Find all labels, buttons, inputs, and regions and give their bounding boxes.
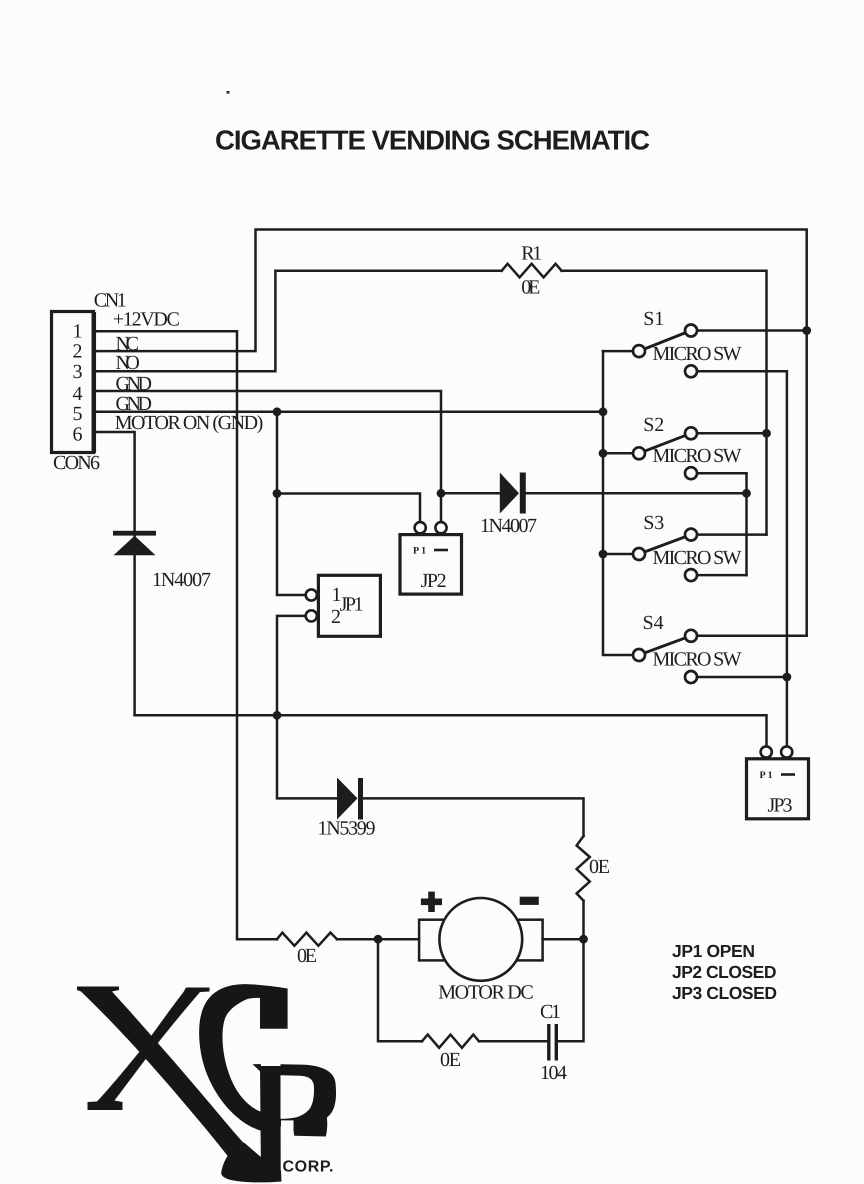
- wire JP2 right pin up: [440, 493, 443, 522]
- wire top rail NC: pin2 to S1/S4 tops: [95, 230, 807, 636]
- jumper JP2 box: [400, 535, 462, 595]
- logo X thick stroke: [77, 987, 258, 1173]
- svg-text:6: 6: [73, 424, 83, 446]
- svg-text:S3: S3: [643, 512, 664, 534]
- wire 1N5399 line right to vertical 0E: [363, 798, 584, 836]
- wire vertical 0E to motor right node: [582, 901, 585, 940]
- wire S3 common: [603, 553, 639, 556]
- pin numbers: [73, 320, 83, 445]
- logo P counter white: [281, 1075, 315, 1119]
- svg-text:CORP.: CORP.: [283, 1159, 334, 1176]
- svg-text:2: 2: [73, 340, 83, 362]
- logo P beak: [253, 1064, 261, 1072]
- wire node A vertical: pin5 dot down to JP1 pin1: [277, 412, 306, 595]
- svg-text:CON6: CON6: [53, 452, 100, 474]
- svg-text:NO: NO: [116, 352, 140, 374]
- svg-text:0E: 0E: [521, 277, 540, 299]
- svg-text:C1: C1: [540, 1001, 561, 1023]
- wire S3 top contact: [697, 533, 767, 536]
- svg-text:JP1: JP1: [340, 593, 364, 615]
- svg-text:MICRO SW: MICRO SW: [653, 648, 742, 670]
- wire bottom long line to JP3 left pin: [135, 715, 767, 746]
- diode 1N4007 vertical (cathode bar up): [113, 531, 156, 556]
- svg-text:JP3: JP3: [768, 795, 793, 817]
- svg-text:S2: S2: [643, 414, 664, 436]
- jumper JP3 pin circles: [761, 746, 793, 757]
- svg-text:P1: P1: [760, 770, 775, 781]
- wire pin1 +12VDC down to motor feed: [95, 331, 277, 939]
- jumper JP3 box: [747, 759, 809, 819]
- logo bottom foot: [221, 1143, 281, 1183]
- svg-text:1N4007: 1N4007: [480, 515, 537, 537]
- svg-text:S4: S4: [643, 612, 664, 634]
- logo P stem notch white: [281, 1120, 294, 1137]
- wire S1 bottom to S4 bottom to JP3 right pin: [697, 371, 787, 746]
- svg-text:0E: 0E: [297, 945, 317, 967]
- wire S1 top contact: [697, 329, 807, 332]
- logo C: [199, 984, 287, 1131]
- switch contact circles: [633, 325, 697, 684]
- svg-text:CIGARETTE VENDING SCHEMATIC: CIGARETTE VENDING SCHEMATIC: [215, 124, 650, 155]
- motor minus mark: [520, 897, 539, 905]
- wire S1 common: [603, 350, 639, 353]
- wire S2 common: [603, 452, 639, 455]
- wire S3 bottom contact: [697, 574, 747, 577]
- wire S2 bottom contact: [697, 472, 747, 475]
- svg-text:5: 5: [73, 403, 83, 425]
- wire 1N4007 cathode to S2/S3 bottoms: [526, 492, 747, 495]
- svg-text:MICRO SW: MICRO SW: [653, 547, 742, 569]
- svg-text:1: 1: [73, 320, 83, 342]
- logo P bowl: [281, 1064, 337, 1126]
- svg-text:4: 4: [73, 383, 83, 405]
- jumper JP1 box: [318, 575, 380, 636]
- capacitor C1 plates: [549, 1024, 557, 1061]
- svg-text:0E: 0E: [589, 856, 610, 878]
- switch S1 lever: [639, 331, 691, 352]
- svg-text:JP3 CLOSED: JP3 CLOSED: [672, 983, 777, 1003]
- diode 1N5399: [337, 778, 363, 820]
- switch S3 lever: [639, 535, 691, 554]
- svg-text:1N4007: 1N4007: [152, 569, 211, 591]
- svg-text:P1: P1: [413, 546, 428, 557]
- jumper JP2 pin circles: [415, 522, 447, 533]
- jumper JP1 pin circles: [306, 589, 317, 621]
- jumper state text block: [672, 941, 777, 1003]
- wire motor right lead: [543, 938, 584, 941]
- wire pin5 GND to switch column: [95, 411, 603, 414]
- diode 1N4007 vertical wire lower: [133, 536, 136, 716]
- svg-text:1N5399: 1N5399: [318, 818, 376, 840]
- svg-text:MOTOR ON (GND): MOTOR ON (GND): [115, 412, 264, 434]
- wire 0E to motor left node: [337, 938, 419, 941]
- wire S4 top contact: [697, 635, 807, 638]
- svg-text:GND: GND: [116, 373, 153, 395]
- switch S4 lever: [639, 636, 691, 655]
- resistor 0E bottom loop: [422, 1035, 479, 1048]
- svg-text:+12VDC: +12VDC: [113, 309, 180, 331]
- svg-text:MICRO SW: MICRO SW: [653, 445, 742, 467]
- svg-text:JP2 CLOSED: JP2 CLOSED: [672, 962, 777, 982]
- svg-text:R1: R1: [521, 243, 542, 265]
- wire C1 right plate to motor right node: [558, 939, 584, 1041]
- wire S2/S3 bottom column: [745, 473, 748, 575]
- logo P foot bar: [293, 1117, 327, 1137]
- switch S2 lever: [639, 433, 691, 453]
- logo C stem descender: [260, 1066, 281, 1182]
- wire 1N4007 anode lead: [441, 492, 500, 495]
- wire 1N4007 line: node A to JP2/diode: [277, 494, 420, 523]
- svg-text:104: 104: [540, 1062, 567, 1084]
- svg-text:JP1 OPEN: JP1 OPEN: [672, 941, 755, 961]
- wire JP1 pin2 node down to 1N5399: [277, 715, 337, 798]
- wire pin6 MOTOR ON down: [95, 432, 135, 531]
- diode 1N4007 horizontal: [500, 473, 526, 514]
- connector CN1 body: [52, 312, 94, 453]
- svg-text:JP2: JP2: [421, 570, 447, 592]
- wire pin4 GND to JP2 node: [95, 391, 441, 493]
- jumper JP2 header mark P1: [413, 546, 448, 557]
- motor plus mark: [421, 892, 442, 912]
- wire R1 rail left: pin3 up to R1: [95, 271, 502, 372]
- svg-text:MOTOR DC: MOTOR DC: [438, 982, 534, 1004]
- svg-text:S1: S1: [643, 308, 664, 330]
- wire S2 top contact: [697, 432, 767, 435]
- wire S4 bottom contact: [697, 676, 787, 679]
- jumper JP3 header mark P1: [760, 770, 796, 781]
- motor DC brush terminals: [419, 920, 448, 961]
- wire R1 rail right: to S2/S3 tops: [562, 271, 767, 535]
- wire switch common column: [603, 351, 639, 655]
- wire 0E to C1 left plate: [479, 1040, 547, 1043]
- svg-text:0E: 0E: [440, 1049, 461, 1071]
- svg-text:3: 3: [73, 361, 83, 383]
- motor DC body circle: [439, 898, 522, 981]
- wire JP1 pin2 down to bottom line: [277, 616, 306, 715]
- XCP logo: [77, 984, 336, 1182]
- speck: [227, 91, 230, 94]
- logo X thin stroke: [88, 988, 210, 1111]
- svg-text:MICRO SW: MICRO SW: [653, 343, 742, 365]
- wire motor bottom loop left: [378, 939, 422, 1041]
- resistor 0E motor feed: [277, 933, 337, 946]
- resistor R1: [502, 264, 562, 278]
- resistor 0E vertical: [577, 836, 590, 901]
